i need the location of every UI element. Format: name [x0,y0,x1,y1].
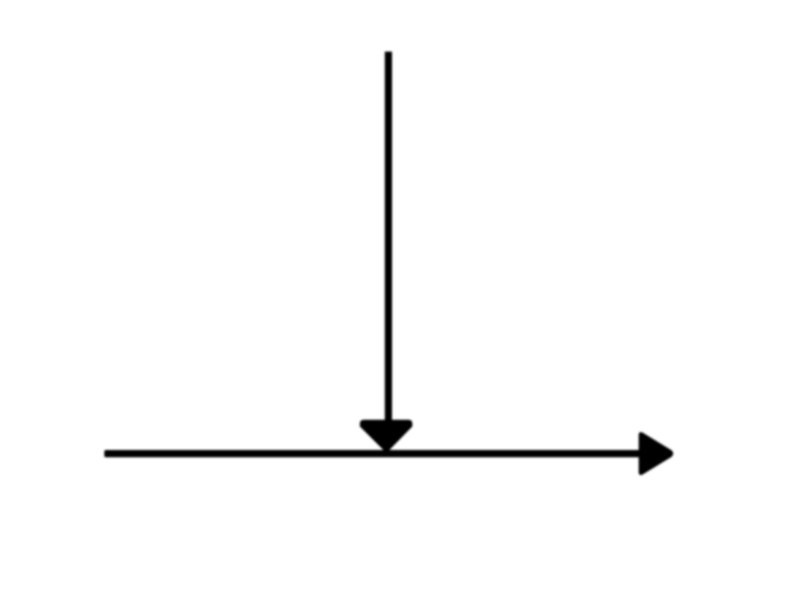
wire horizontal line [104,450,640,457]
wire vertical line [385,52,392,424]
right arrowhead [639,432,674,475]
down arrowhead [360,420,412,452]
